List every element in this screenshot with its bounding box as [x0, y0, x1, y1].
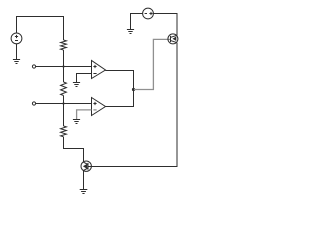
wire V1 top to R1: [17, 17, 64, 41]
wire V2 minus to ground: [131, 14, 143, 30]
ground G3 (U2 minus): [73, 120, 80, 124]
voltage source V1: [11, 33, 22, 44]
wire node C to Q1 base (grey net): [134, 39, 171, 89]
node B junction: [62, 102, 64, 104]
node C junction: [132, 88, 135, 91]
wire T2 to op-amp U2 + input: [36, 103, 92, 105]
wire Q2 emitter to ground: [83, 171, 85, 189]
U2 minus symbol (grey): [93, 109, 96, 111]
op-amp U2: [92, 98, 106, 116]
Q2 arrow: [83, 164, 87, 169]
wire R2 to R3: [63, 96, 65, 127]
wire V1 bottom: [16, 44, 18, 60]
ground G1 (below V1): [13, 60, 20, 64]
resistor R1: [61, 40, 67, 50]
ground G5 (Q2 emitter): [80, 190, 88, 194]
wire R1 to R2: [63, 50, 65, 82]
ground G2 (U1 minus): [73, 83, 80, 87]
wire U1 - input to ground: [77, 74, 92, 83]
Q1 arrow: [173, 36, 177, 41]
wire R3 to Q2 collector: [64, 137, 84, 162]
wire T1 to op-amp U1 + input: [36, 66, 92, 68]
wire U1 output to U2 output bus: [105, 71, 133, 107]
wire Q1 emitter to Q2 base: [88, 43, 177, 167]
ground G4 (V2): [127, 30, 134, 34]
transistor Q2: [81, 161, 91, 171]
transistor Q1: [168, 34, 178, 44]
wire V2 plus to Q1 collector: [153, 14, 177, 36]
terminal T2: [32, 102, 35, 105]
op-amp U1: [92, 61, 106, 79]
resistor R2: [61, 82, 67, 96]
wire U2 - input to ground (grey net): [77, 110, 92, 119]
terminal T1: [32, 65, 35, 68]
node A junction: [62, 65, 64, 67]
voltage source V2: [143, 8, 154, 19]
resistor R3: [61, 126, 67, 137]
